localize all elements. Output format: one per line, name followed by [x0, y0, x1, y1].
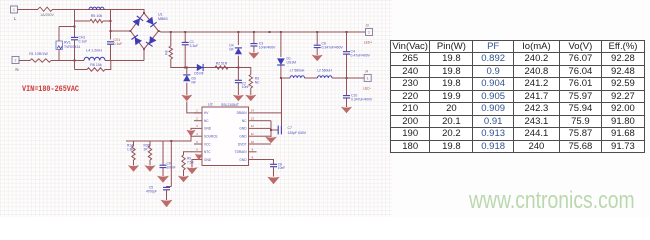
resistor R1	[30, 59, 51, 62]
pin 6 stub	[194, 151, 202, 153]
svg-text:N: N	[15, 67, 18, 72]
svg-text:0.1uF: 0.1uF	[114, 42, 123, 46]
capacitor C9	[160, 165, 167, 167]
wire	[280, 66, 282, 79]
svg-text:0.347uF/400V: 0.347uF/400V	[322, 46, 344, 50]
inductor L2	[317, 76, 332, 78]
svg-text:VIN=180-265VAC: VIN=180-265VAC	[22, 85, 79, 94]
wire	[18, 9, 34, 11]
wire	[237, 56, 239, 80]
wire	[280, 32, 282, 57]
wire (drain riser)	[281, 78, 283, 126]
wire	[271, 129, 278, 131]
svg-text:10nF: 10nF	[242, 85, 250, 89]
wire	[162, 141, 164, 165]
pin 14 stub	[249, 112, 257, 114]
junction	[270, 129, 272, 131]
wire	[186, 83, 188, 95]
capacitor C7	[278, 126, 281, 135]
wire	[105, 61, 111, 70]
wire	[74, 40, 76, 61]
svg-text:8: 8	[251, 155, 253, 159]
wire (DC+ rail)	[159, 31, 366, 32]
wire	[332, 77, 364, 79]
connector J3	[366, 29, 373, 36]
svg-text:1A/250V: 1A/250V	[40, 13, 54, 17]
junction	[237, 67, 239, 69]
pin 7 stub	[194, 159, 202, 161]
capacitor C8	[270, 164, 277, 166]
svg-text:2: 2	[15, 58, 17, 62]
capacitor C5	[163, 187, 170, 189]
svg-text:LED-: LED-	[363, 87, 371, 91]
svg-text:L2 560uH: L2 560uH	[317, 69, 332, 73]
svg-text:R8: R8	[165, 50, 169, 54]
junction	[346, 77, 348, 79]
svg-text:TVR07431: TVR07431	[64, 45, 80, 49]
svg-text:0.47uF/400V: 0.47uF/400V	[351, 53, 371, 57]
ground	[341, 107, 351, 113]
resistor R2	[215, 66, 228, 69]
svg-text:MB6S: MB6S	[158, 17, 168, 21]
wire	[167, 186, 172, 189]
connector J1 (L)	[11, 6, 18, 13]
pin 11 stub	[249, 135, 257, 137]
junction	[74, 26, 76, 28]
wire (drain)	[257, 112, 282, 114]
wire	[149, 141, 151, 146]
pin 5 stub	[194, 143, 202, 145]
pin 4 stub	[194, 135, 202, 137]
svg-text:4: 4	[196, 132, 198, 136]
svg-text:0.1uF: 0.1uF	[79, 40, 88, 44]
svg-text:2R: 2R	[144, 148, 149, 152]
wire	[166, 190, 168, 200]
wire	[74, 10, 76, 22]
wire	[257, 160, 274, 165]
wire	[75, 69, 88, 71]
svg-text:DRAIN: DRAIN	[237, 111, 248, 115]
pin 12 stub	[249, 127, 257, 129]
junction	[184, 31, 186, 33]
bridge diode top-left	[133, 16, 144, 26]
svg-text:0.347uF/400V: 0.347uF/400V	[351, 97, 373, 101]
wire	[110, 10, 112, 40]
resistor R5	[90, 19, 103, 22]
svg-text:10: 10	[251, 140, 255, 144]
svg-text:10nF: 10nF	[278, 166, 285, 170]
wire	[126, 136, 194, 141]
wire (gnd bus)	[270, 121, 272, 137]
svg-text:L4 1.2mH: L4 1.2mH	[86, 49, 102, 53]
power arrow at NTC	[195, 154, 203, 160]
resistor R9	[182, 155, 185, 170]
svg-text:2: 2	[196, 117, 198, 121]
wire	[191, 128, 194, 130]
svg-text:NF: NF	[192, 80, 196, 84]
junction	[143, 48, 145, 50]
wire	[74, 10, 76, 38]
wire	[74, 61, 76, 70]
svg-text:D5 NF: D5 NF	[194, 72, 204, 76]
wire	[346, 54, 348, 78]
svg-text:1: 1	[368, 30, 370, 34]
wire	[59, 26, 75, 28]
junction	[74, 60, 76, 62]
pin 13 stub	[249, 120, 257, 122]
wire	[316, 32, 318, 45]
svg-text:SOURCE: SOURCE	[204, 135, 218, 139]
capacitor C3	[250, 44, 257, 46]
wire	[253, 32, 255, 43]
wire	[170, 32, 172, 46]
inductor L7	[290, 76, 305, 78]
wire	[143, 49, 145, 61]
junction	[346, 31, 348, 33]
resistor R1A	[132, 146, 135, 160]
wire	[149, 160, 151, 166]
ground	[268, 177, 280, 184]
ground	[178, 176, 188, 182]
svg-text:4700pF: 4700pF	[146, 190, 157, 194]
wire	[257, 127, 272, 129]
svg-text:U2: U2	[208, 103, 213, 107]
ground	[128, 166, 138, 172]
svg-text:GND: GND	[239, 158, 247, 162]
svg-text:NC: NC	[255, 81, 260, 85]
ground	[312, 55, 322, 61]
pin 1 stub	[194, 112, 202, 114]
capacitor CH1	[71, 37, 78, 39]
bridge diode top-right	[146, 17, 157, 27]
fuse F1	[33, 7, 54, 11]
inductor L3 winding	[89, 7, 104, 9]
svg-text:GND: GND	[204, 158, 212, 162]
connector J4	[364, 74, 371, 81]
svg-text:NC: NC	[204, 119, 209, 123]
wire	[51, 60, 84, 62]
wire	[305, 77, 318, 79]
wire	[184, 45, 186, 68]
svg-text:13: 13	[251, 117, 255, 121]
wire	[257, 143, 272, 145]
resistor R8	[169, 46, 172, 59]
wire	[237, 32, 239, 45]
svg-text:NC: NC	[242, 119, 247, 123]
junction	[253, 31, 255, 33]
svg-text:L7 560uH: L7 560uH	[290, 69, 305, 73]
resistor R6	[87, 68, 105, 71]
svg-text:C7: C7	[288, 126, 292, 130]
junction	[316, 31, 318, 33]
bridge diode bottom-left	[131, 35, 142, 45]
wire	[192, 160, 194, 168]
svg-text:GND: GND	[204, 127, 212, 131]
wire	[273, 167, 275, 177]
pin 8 stub	[249, 159, 257, 161]
wire	[162, 168, 164, 176]
wire	[111, 30, 131, 32]
svg-text:3.3uF: 3.3uF	[190, 44, 199, 48]
wire	[133, 141, 135, 146]
svg-text:DVDT: DVDT	[238, 142, 247, 146]
wire	[187, 102, 202, 113]
capacitor C6	[314, 45, 321, 47]
pin 10 stub	[249, 143, 257, 145]
ground	[246, 95, 256, 101]
junction	[280, 31, 282, 33]
wire	[346, 78, 348, 95]
svg-text:10nF/400V: 10nF/400V	[259, 45, 276, 49]
svg-text:1: 1	[367, 76, 369, 80]
svg-text:R6 10k: R6 10k	[90, 63, 102, 67]
svg-text:U1: U1	[158, 13, 163, 17]
ground	[161, 200, 172, 207]
svg-text:5: 5	[196, 140, 198, 144]
wire	[170, 141, 172, 187]
svg-text:SSL21084T: SSL21084T	[221, 103, 239, 107]
svg-text:11: 11	[251, 132, 254, 136]
wire	[316, 48, 318, 55]
wire	[346, 98, 348, 107]
wire	[75, 20, 91, 22]
wire	[19, 60, 30, 62]
svg-text:US1M: US1M	[287, 61, 297, 65]
bridge rectifier U1 diamond	[131, 13, 159, 49]
svg-text:GND: GND	[239, 135, 247, 139]
svg-text:120pF 630V: 120pF 630V	[288, 131, 307, 135]
wire	[110, 44, 112, 60]
junction	[186, 67, 188, 69]
svg-text:R1 10R/1W: R1 10R/1W	[29, 52, 48, 56]
junction	[269, 31, 271, 33]
svg-text:L: L	[14, 16, 17, 21]
junction	[170, 31, 172, 33]
ground	[145, 166, 155, 172]
junction	[158, 30, 160, 32]
ground	[157, 176, 168, 183]
svg-text:J3: J3	[365, 24, 369, 28]
wire	[257, 135, 272, 137]
wire	[257, 120, 272, 122]
wire	[250, 88, 252, 95]
diode D3	[183, 75, 190, 81]
diode D5	[197, 64, 203, 71]
svg-text:R5 10k: R5 10k	[91, 14, 103, 18]
junction	[237, 31, 239, 33]
pin 2 stub	[194, 120, 202, 122]
junction	[170, 140, 172, 142]
capacitor CX1	[107, 42, 114, 44]
svg-text:9: 9	[251, 148, 253, 152]
connector J2 (N)	[12, 57, 19, 64]
junction	[110, 30, 112, 32]
pin 3 stub	[194, 127, 202, 129]
wire	[184, 152, 195, 155]
wire	[238, 68, 250, 75]
capacitor C10	[343, 96, 350, 98]
ground at pin 3	[187, 130, 195, 136]
svg-text:6: 6	[196, 148, 198, 152]
resistor R3	[249, 75, 252, 89]
ground	[249, 53, 259, 59]
svg-text:J4: J4	[365, 70, 369, 74]
varistor RV1	[56, 41, 62, 49]
junction	[110, 20, 112, 22]
capacitor C4	[343, 52, 350, 54]
wire	[58, 27, 60, 42]
power arrow node HV	[182, 95, 192, 101]
capacitor C1	[182, 42, 189, 44]
svg-text:14: 14	[251, 109, 255, 113]
wire	[237, 83, 239, 95]
svg-text:R2 51R: R2 51R	[216, 62, 228, 66]
wire	[184, 32, 186, 42]
pin 9 stub	[249, 151, 257, 153]
svg-text:3: 3	[196, 124, 198, 128]
junction	[184, 67, 186, 69]
wire	[253, 46, 255, 53]
wire	[183, 170, 185, 176]
diode D4	[235, 48, 242, 54]
svg-text:1: 1	[196, 109, 198, 113]
wire	[133, 160, 135, 166]
wire	[346, 32, 348, 51]
inductor L4	[84, 57, 105, 60]
svg-text:GND: GND	[239, 127, 247, 131]
wire	[105, 60, 144, 62]
junction	[143, 12, 145, 14]
wire	[52, 10, 144, 14]
svg-text:VCC: VCC	[204, 142, 211, 146]
svg-text:NTC: NTC	[204, 150, 211, 154]
svg-text:1: 1	[13, 8, 15, 12]
svg-text:TDRAIN: TDRAIN	[235, 150, 248, 154]
bridge diode bottom-right	[146, 36, 157, 46]
svg-text:12: 12	[251, 124, 255, 128]
wire	[103, 20, 111, 22]
capacitor C2	[235, 80, 242, 82]
ground at pin 7	[187, 168, 198, 174]
svg-text:LED+: LED+	[364, 41, 373, 45]
wire	[186, 68, 188, 75]
wire	[58, 49, 60, 60]
ground at bus	[266, 137, 277, 143]
junction	[280, 77, 282, 79]
svg-text:NF: NF	[229, 48, 233, 52]
wire	[281, 77, 290, 79]
junction	[130, 30, 132, 32]
diode D1	[277, 58, 285, 65]
svg-text:7.5R: 7.5R	[187, 161, 194, 165]
wire	[171, 59, 239, 68]
IC U2 SSL21084T body	[202, 107, 249, 166]
resistor R3B	[148, 146, 151, 160]
ground	[233, 95, 243, 101]
